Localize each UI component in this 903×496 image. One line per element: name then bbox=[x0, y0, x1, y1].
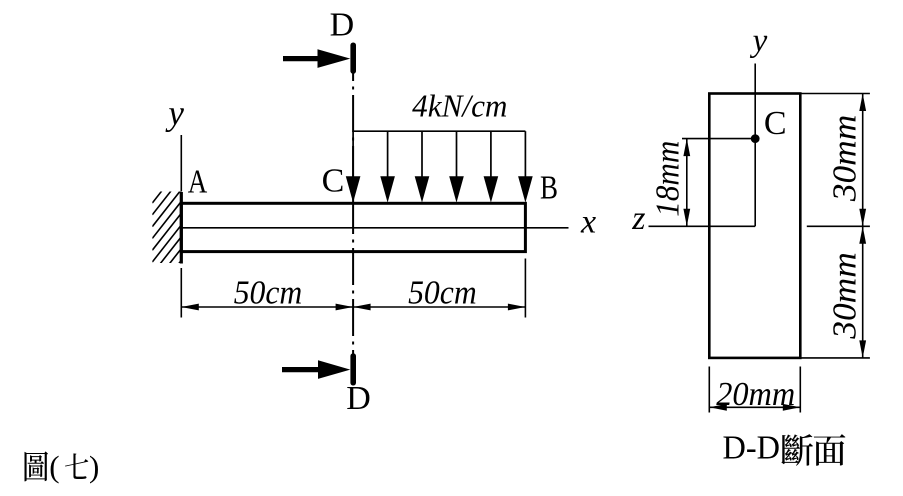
cross-section rectangle bbox=[709, 94, 800, 358]
svg-text:20mm: 20mm bbox=[716, 376, 795, 413]
x axis / beam centerline bbox=[181, 227, 568, 229]
svg-text:D: D bbox=[346, 380, 371, 417]
svg-text:x: x bbox=[580, 204, 596, 241]
top force arrow at D bbox=[283, 49, 350, 68]
z axis (section) bbox=[649, 225, 756, 227]
svg-text:): ) bbox=[89, 449, 99, 484]
svg-text:(: ( bbox=[49, 449, 59, 484]
svg-text:D: D bbox=[330, 6, 355, 43]
svg-text:D-D: D-D bbox=[723, 429, 781, 466]
ext line from centroid C bbox=[682, 138, 755, 140]
dim line 20mm bbox=[709, 406, 800, 408]
ext lines 30mm bbox=[801, 93, 870, 95]
figure label glyph 七 bbox=[65, 453, 88, 479]
svg-text:50cm: 50cm bbox=[234, 275, 303, 312]
distributed load top line bbox=[353, 130, 525, 132]
figure label glyph 圖 bbox=[24, 451, 48, 481]
dim extension line left (A) bbox=[180, 268, 182, 318]
dim line 30mm+30mm bbox=[862, 94, 864, 358]
caption glyph 面 bbox=[814, 434, 846, 466]
svg-text:18mm: 18mm bbox=[650, 141, 687, 217]
dim arrowheads 50cm bbox=[181, 304, 199, 311]
dimension line 50cm spans bbox=[181, 306, 525, 308]
y axis at A bbox=[180, 135, 182, 192]
svg-text:C: C bbox=[764, 105, 787, 142]
arrowheads 20mm bbox=[709, 404, 727, 411]
beam outline bbox=[181, 203, 525, 251]
svg-text:30mm: 30mm bbox=[827, 252, 864, 340]
svg-text:50cm: 50cm bbox=[408, 275, 477, 312]
section mark bar top bbox=[350, 43, 356, 74]
ext lines 20mm bbox=[708, 367, 710, 413]
arrowheads 30mm bbox=[859, 94, 866, 112]
y axis (section) bbox=[754, 64, 756, 227]
distributed load arrowheads bbox=[346, 176, 361, 202]
arrowheads 18mm bbox=[683, 139, 690, 157]
svg-text:B: B bbox=[540, 170, 558, 207]
section mark bar bottom bbox=[350, 353, 356, 385]
wall line at A bbox=[180, 192, 183, 264]
caption glyph 斷 bbox=[781, 434, 813, 466]
fixed support wall hatching bbox=[152, 166, 181, 309]
svg-text:y: y bbox=[750, 23, 768, 59]
dim line 18mm bbox=[686, 139, 688, 227]
bottom force arrow at D bbox=[282, 360, 350, 379]
distributed load arrow stems bbox=[352, 131, 354, 179]
section line D-D (dash-dot) bbox=[352, 73, 354, 354]
svg-text:C: C bbox=[322, 163, 345, 200]
svg-text:A: A bbox=[188, 164, 208, 201]
svg-text:y: y bbox=[165, 94, 184, 133]
centroid dot C bbox=[751, 134, 760, 143]
svg-text:30mm: 30mm bbox=[827, 115, 864, 203]
svg-text:z: z bbox=[631, 200, 645, 237]
svg-text:4kN/cm: 4kN/cm bbox=[412, 88, 507, 124]
dim extension line right (B) bbox=[524, 259, 526, 318]
